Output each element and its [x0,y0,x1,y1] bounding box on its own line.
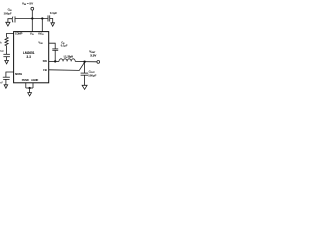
svg-text:VDD: VDD [38,41,43,46]
svg-text:SD/SS: SD/SS [15,72,22,76]
wire input rail [15,18,48,20]
node junction VIN [31,17,33,19]
wire ground bar [26,87,33,89]
svg-text:3.3V: 3.3V [90,53,96,57]
wire AVIN pin stub [41,19,43,32]
svg-text:PGND: PGND [22,78,29,82]
wire soft-start cap to ground [5,79,7,84]
wire to main ground [29,88,31,93]
wire VOUT to COUT [84,62,86,73]
ground COUT [82,85,87,89]
svg-text:AGND: AGND [31,78,38,82]
ground compensation [5,60,9,64]
wire PGND stub [25,83,27,88]
svg-text:COMP: COMP [15,32,23,36]
node junction AVIN [41,17,43,19]
wire resistor to cap [6,46,8,54]
wire CIN left lead [8,19,13,23]
svg-text:10nF: 10nF [0,81,3,85]
wire SW pin [49,60,59,62]
svg-text:L1, 22µH: L1, 22µH [64,55,73,58]
wire cap to ground [6,57,8,61]
svg-text:VIN: VIN [30,32,34,37]
inductor L1 [59,59,75,62]
svg-text:4.7nF: 4.7nF [0,49,4,53]
svg-text:FB: FB [43,68,47,72]
wire CB pin [49,43,56,49]
ground bypass [51,23,55,27]
svg-text:100µF: 100µF [88,73,96,77]
svg-text:SW: SW [43,59,48,63]
wire FB pin [49,62,85,70]
capacitor CB [52,48,58,50]
capacitor COUT [81,72,89,74]
VOUT output terminal [97,61,100,64]
wire output [75,61,97,63]
capacitor CIN [11,17,14,23]
svg-text:0.1µF: 0.1µF [50,11,57,15]
capacitor soft-start [3,76,10,78]
wire terminal to rail [31,10,33,18]
capacitor compensation [3,53,9,55]
wire VIN pin stub [31,19,33,32]
ground soft-start [4,85,8,89]
capacitor bypass 0.1uF [47,15,49,21]
node junction ground [28,87,30,89]
svg-text:AVIN: AVIN [38,32,44,37]
ground CIN [6,22,10,26]
svg-text:0.1µF: 0.1µF [61,44,68,48]
node junction VOUT [83,61,85,63]
resistor compensation [5,37,8,46]
wire COMP pin [7,33,14,37]
ground main [28,93,32,96]
wire CB to SW node [54,50,56,61]
wire COUT to ground [84,75,86,85]
VIN input terminal [31,7,34,10]
wire SD/SS pin [6,72,14,77]
svg-text:100µF: 100µF [4,12,12,16]
svg-text:VIN = 5V: VIN = 5V [22,1,33,6]
op-amp U1 LM2651 box [14,32,49,83]
svg-text:3.3: 3.3 [26,55,31,59]
node junction SW [54,60,56,62]
svg-text:30k: 30k [0,40,2,44]
wire AGND stub [32,83,34,88]
wire bypass right lead [50,19,53,23]
